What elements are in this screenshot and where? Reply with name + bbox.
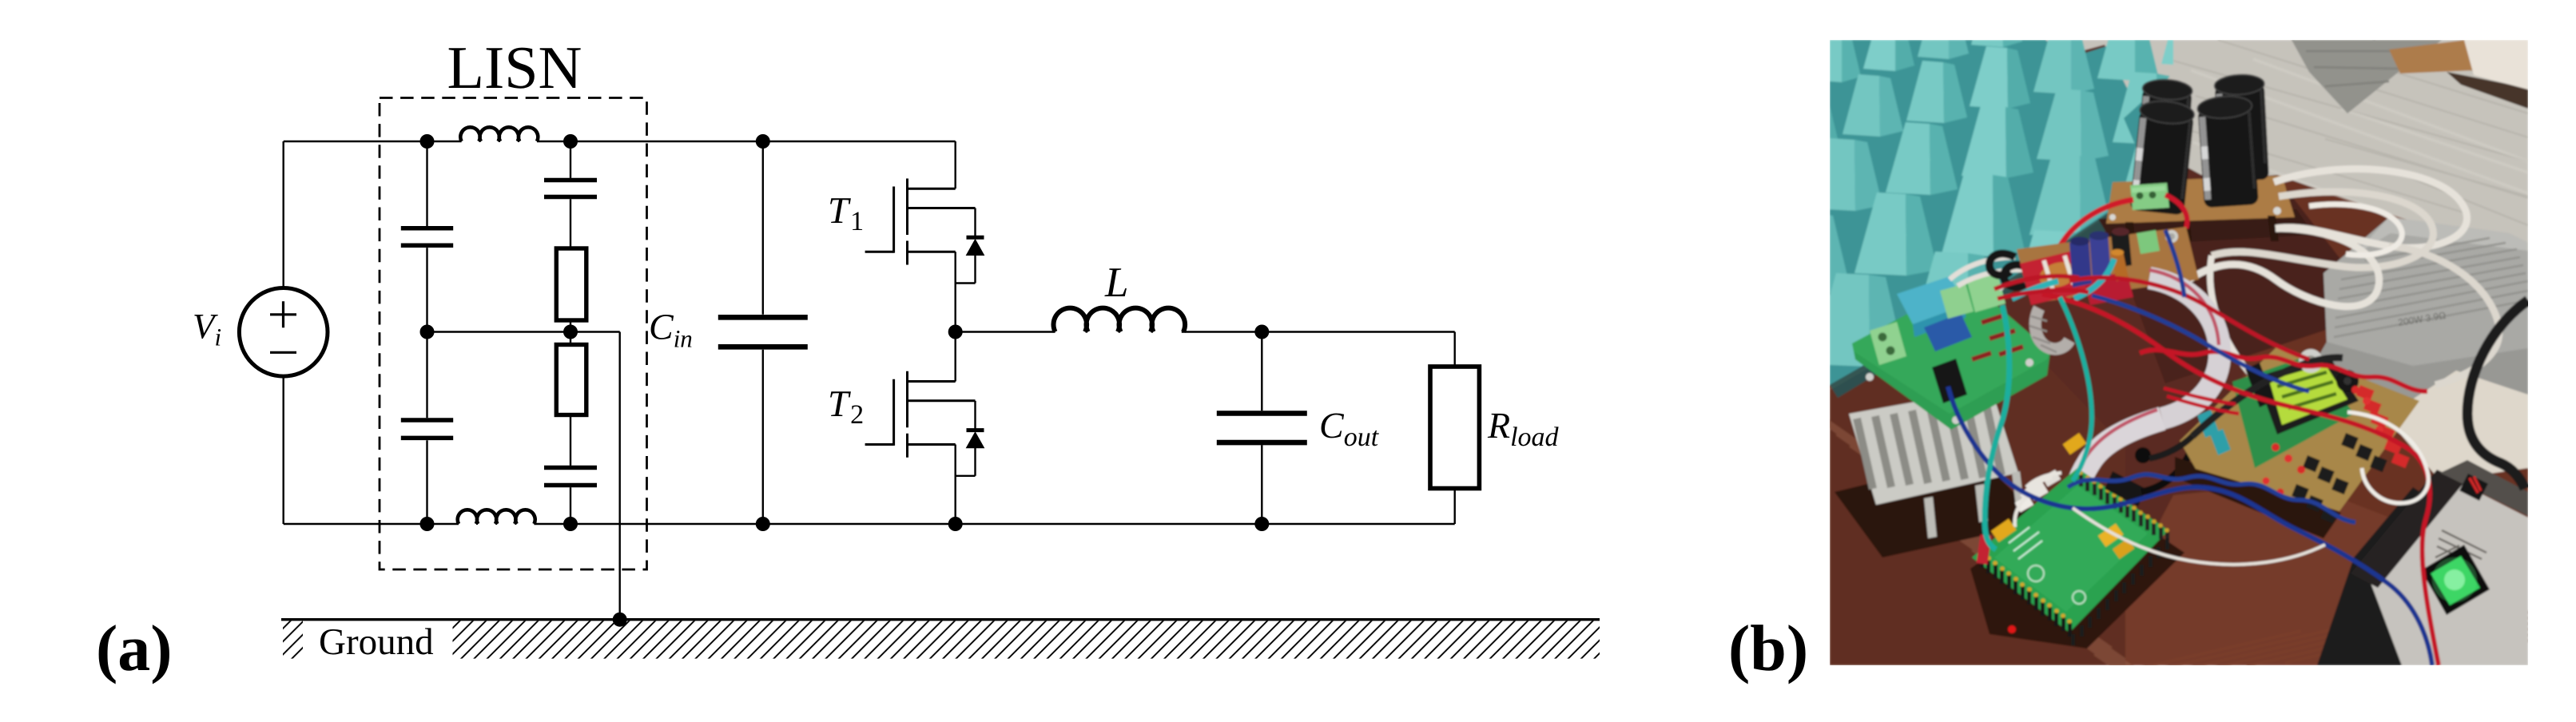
photo: teal wire left join [2012, 281, 2058, 299]
node T2 source [948, 517, 963, 531]
circuit schematic panel (a) [96, 34, 1808, 684]
svg-text:L: L [1104, 260, 1128, 306]
photo: green terminal block mid [1940, 284, 1974, 319]
photo: table edge highlight [1830, 211, 2111, 388]
wire LISN right branch seg1 [570, 141, 571, 178]
photo: dev board inner [1994, 486, 2148, 612]
photo: green terminal block left [1870, 322, 1906, 365]
photo: psu green button glow [2432, 557, 2477, 602]
capacitor LISN right upper [544, 178, 597, 183]
transistor T2 gate bar [892, 379, 895, 446]
photo: red terminals [2356, 385, 2375, 401]
photo: yellow connector 3 [2098, 523, 2124, 546]
photo: red wire upper arc [2069, 278, 2309, 359]
photo: cap board [2106, 176, 2295, 224]
photo: blue film cap left [1924, 313, 1972, 351]
wire bottom rail right [534, 523, 1454, 525]
node top-right LISN [563, 134, 578, 149]
photo: left PCB light top [1852, 281, 2050, 414]
photo: blue cap tops [2070, 237, 2089, 246]
photo: maroon cap center [2111, 230, 2132, 268]
photo: floor dark band seams [2306, 51, 2424, 86]
transistor T2 drain lead [908, 380, 956, 383]
photo: black hook 1 [1990, 254, 2015, 276]
photo: psu dark lower-left [2317, 487, 2485, 665]
svg-text:Ground: Ground [319, 621, 434, 663]
wire Cout lower [1261, 445, 1262, 524]
photo: transformer copper [2037, 258, 2080, 291]
photo: buzzer [2336, 370, 2359, 392]
photo: green terminal block right [1967, 273, 2006, 312]
wire T2 diode lower [974, 448, 976, 476]
wire top rail right [537, 141, 956, 142]
photo: silver resistor base shadow [2304, 375, 2528, 433]
photo: psu green button bezel [2421, 545, 2490, 615]
photo: transformer ties [2044, 256, 2073, 289]
photo: pot knob [2299, 349, 2323, 373]
photo: big capacitor front-right [2196, 94, 2258, 208]
node bottom-right LISN [563, 517, 578, 531]
photo: control board buttons [2341, 433, 2359, 450]
wire Vi top lead [283, 141, 284, 287]
svg-text:Rload: Rload [1487, 405, 1560, 452]
photo: psu logo [2459, 474, 2488, 501]
diode T2 cathode bar [967, 428, 984, 432]
photo: red wires at left board [1994, 276, 2089, 299]
photo: black cable over control [2192, 358, 2343, 436]
photo: yellow connector 2 [2063, 433, 2087, 454]
photo: dev board pin header left [1980, 554, 1984, 568]
wire Cin lower [762, 350, 764, 524]
inductor LISN top [460, 127, 538, 141]
svg-text:Cin: Cin [649, 307, 693, 353]
photo: black relay on left PCB [1932, 359, 1967, 403]
wire L to Rload [1182, 331, 1455, 332]
resistor LISN upper [556, 248, 586, 320]
node mid-right LISN [563, 325, 578, 339]
photo: blue cap center 1 [2069, 239, 2092, 288]
photo: red thin wires dev board [2164, 388, 2239, 414]
photo: left PCB screws [1866, 373, 1874, 381]
photo: red module 2 [2084, 272, 2133, 305]
resistor LISN lower [556, 345, 586, 415]
photo: ribbon cable upper [2149, 278, 2220, 419]
photo: big capacitor front-left [2129, 99, 2195, 216]
photo: heatsink legs [1924, 471, 2024, 538]
wire bottom rail left [284, 523, 459, 525]
photo: silver resistor body [2324, 217, 2528, 375]
photo: usb cable [2141, 447, 2192, 492]
photo: cap board screws [2273, 207, 2281, 215]
svg-text:T2: T2 [828, 383, 865, 430]
photo: teal wire to board [2060, 297, 2092, 481]
node Cin bottom [756, 517, 770, 531]
transistor T1 source lead [908, 251, 956, 253]
photo: foam bottom shadow [1830, 180, 2159, 398]
node ground attach [613, 613, 627, 627]
node Cin top [756, 134, 770, 149]
photo: ribbon cable red edge upper [2149, 270, 2219, 345]
photo: lcd pcb [2232, 355, 2354, 468]
photo: red led column [2363, 397, 2371, 405]
transistor T2 channel [906, 371, 908, 458]
wire T1 diode upper [974, 208, 976, 239]
photo: big capacitor back-right [2214, 73, 2269, 181]
transistor T1 channel [906, 179, 908, 265]
photo: dev board white wires [2015, 473, 2061, 527]
wire Rload lower [1453, 489, 1455, 525]
photo: black hook 2 [2004, 265, 2031, 288]
source Vi plus sign [270, 301, 296, 327]
wire LISN left branch upper [426, 141, 427, 226]
photo: heatsink shadow [1835, 457, 2044, 557]
svg-text:LISN: LISN [447, 34, 582, 101]
wire T1 diode return [956, 282, 976, 284]
photo: red wire wavy control [2140, 350, 2427, 391]
wire T2 source to rail [954, 445, 956, 525]
transistor T1 gate lead [865, 251, 894, 253]
ground line [281, 618, 1600, 621]
photo: lcd frame [2256, 355, 2359, 434]
node mid-left LISN [420, 325, 435, 339]
photo: thin white wire bottom [2073, 508, 2325, 565]
svg-text:Cout: Cout [1319, 405, 1380, 452]
photo: control board [2180, 345, 2419, 511]
photo: red led dev board [2008, 625, 2016, 633]
capacitor Cout [1217, 411, 1307, 416]
node Cout bottom [1254, 517, 1269, 531]
photo: lcd screen [2269, 364, 2347, 425]
photo: wood grain streaks lower-right [2093, 596, 2576, 679]
photo: table dark center [2101, 177, 2381, 383]
wire top rail left [284, 141, 462, 142]
inductor L [1053, 308, 1185, 332]
node switch [948, 325, 963, 339]
photo: blue cap center 2 [2089, 233, 2111, 280]
wire T2 diode upper [974, 401, 976, 431]
capacitor LISN right lower [544, 466, 597, 470]
photo: ribbon zip tie [2065, 484, 2092, 492]
photo: teal caps control [2197, 410, 2219, 438]
wire LISN left branch middle [426, 248, 427, 418]
photo: heatsink body [1849, 388, 2018, 505]
photo: green terminal holes left [1878, 333, 1887, 342]
photo: psu top dark edge [2440, 460, 2528, 516]
capacitor LISN left upper [401, 226, 453, 231]
photo: left PCB red parts [1972, 315, 2023, 359]
photo: silver bolt center [2165, 230, 2178, 243]
photo: table mid-right tone [2229, 176, 2528, 571]
photo: cap board legs [2125, 216, 2279, 251]
photo: foam base [1830, 40, 2173, 385]
photo: ribbon cable lower [2074, 419, 2162, 510]
resistor Rload [1430, 367, 1479, 489]
photo: blue wire at caps [2165, 230, 2184, 297]
node bottom-left LISN [420, 517, 435, 531]
photo: relay teal box [1897, 276, 1966, 324]
transistor T1 bulk lead [908, 207, 976, 209]
diode T2 triangle [967, 432, 984, 448]
photo: psu green button [2431, 556, 2480, 605]
photo: wood plank top-right corner [2389, 40, 2474, 73]
photo: heatsink fins [1857, 401, 2002, 489]
wire LISN right branch seg5 [570, 487, 571, 524]
wire LISN left branch lower [426, 440, 427, 524]
photo: white cable down [2210, 256, 2347, 413]
photo: red wire main [2042, 294, 2439, 665]
wire T2 drain from node [954, 332, 956, 382]
photo: teal wire center [2074, 259, 2114, 299]
node top-left LISN [420, 134, 435, 149]
photo: dev board white connectors [2028, 482, 2049, 500]
photo: dev board red jumper [1977, 534, 1992, 565]
photo: psu text lines [2437, 530, 2487, 574]
photo: teal wire long [1985, 305, 2010, 549]
photo: red wire at cap board [2057, 200, 2133, 270]
photo: green mini terminal center [2137, 230, 2160, 254]
source Vi minus sign [270, 351, 296, 354]
svg-text:(a): (a) [96, 612, 173, 684]
photo: white cable loop B [2212, 192, 2433, 268]
LISN dashed box [380, 98, 647, 570]
transistor T2 source lead [908, 443, 956, 446]
photo: black audio plug [2135, 447, 2151, 463]
svg-text:(b): (b) [1728, 612, 1808, 684]
photo: blue wire main [1948, 387, 2432, 665]
photo: psu button label [2435, 545, 2459, 557]
photo: table base [1830, 40, 2528, 665]
svg-text:T1: T1 [828, 190, 865, 236]
photo: dark sliver top-right [2447, 72, 2528, 109]
photo: table bottom-left tone [1830, 297, 2125, 665]
photo: dev board pin header right [2079, 474, 2083, 486]
wire T2 diode return [956, 475, 976, 477]
photo: white cable inner loop [2309, 204, 2402, 256]
capacitor Cin [718, 315, 808, 320]
photo: yellow connector 4 [2113, 538, 2134, 558]
photo: floor light streaks [2191, 59, 2528, 252]
photo: floor plank seams [2173, 40, 2528, 225]
inductor LISN bottom [458, 510, 535, 524]
photo: black cable right edge [2467, 300, 2528, 489]
wire to ground [619, 332, 621, 620]
wire switch node to L [956, 331, 1055, 332]
photo: dev board logo circles [2028, 565, 2044, 581]
photo: cap board green terminal [2130, 183, 2169, 210]
wire Cout upper [1261, 332, 1262, 411]
photo: blue wire wavy [2068, 474, 2355, 522]
photo: relay teal box side [1913, 305, 1966, 337]
photo: gray tube [2035, 308, 2069, 349]
photo: ribbon red edge lower [2070, 410, 2157, 502]
photo: cream corner top-right [2464, 40, 2528, 89]
wire T1 diode lower [974, 256, 976, 284]
diode T1 cathode bar [967, 236, 984, 240]
photo: left PCB [1852, 281, 2050, 430]
wire LISN right branch seg2 [570, 199, 571, 248]
photo: dev board pin header bottom [2071, 634, 2075, 645]
wire T1 source to node [954, 252, 956, 331]
photo: control board shadow [2175, 457, 2341, 538]
photo: control board led row [2272, 443, 2280, 451]
photo: silver resistor base flange [2308, 342, 2528, 411]
photo: dev board usb [2105, 471, 2146, 506]
diode T1 triangle [967, 240, 984, 256]
photo: lcd text lines [2277, 372, 2336, 408]
svg-text:Vi: Vi [193, 307, 221, 351]
wire T1 drain from rail [954, 141, 956, 188]
photo: floor dark band top-center [2292, 40, 2442, 113]
photo: cap board terminal detail [2137, 192, 2144, 200]
photo: thin white wire right [2347, 412, 2428, 503]
wire Vi bottom lead [283, 378, 284, 524]
photo: white wires to hooks [1950, 257, 2031, 286]
photo: header strip control [2245, 363, 2274, 407]
node Cout top [1254, 325, 1269, 339]
wire Rload upper [1453, 332, 1455, 367]
ground hatch left stub [283, 621, 303, 658]
photo: white cable loop A [2274, 169, 2467, 248]
photo: big capacitor back-left [2136, 78, 2192, 190]
photo: silver resistor top sheen [2354, 217, 2528, 256]
photo: gray tube ribs [2029, 316, 2057, 352]
photo: floor base [2042, 40, 2528, 261]
photo: table lighter bottom-right [2085, 471, 2528, 665]
wire LISN middle rail [427, 331, 620, 332]
photo: white cable to resistor [2389, 246, 2499, 385]
photo: center PCB [2017, 227, 2199, 303]
photo: copper screw post [2111, 252, 2129, 281]
transistor T1 drain lead [908, 188, 956, 190]
wire LISN right branch seg4 [570, 415, 571, 466]
photo: white paper sheet [2386, 371, 2528, 481]
photo: wood grain streaks lower-left [1782, 388, 2234, 722]
photo: yellow connector 1 [1991, 518, 2017, 541]
ground hatch main [453, 621, 1600, 658]
wire Cin upper [762, 141, 764, 315]
capacitor LISN left lower [401, 418, 453, 422]
photo: psu black frame edge [2351, 470, 2464, 588]
photo: blue wire top [2092, 296, 2309, 391]
photo: dev board shadow [1970, 486, 2184, 649]
source Vi circle [239, 288, 328, 377]
wire LISN right branch seg3 [570, 320, 571, 345]
photo: psu face [2363, 473, 2528, 665]
photo: silver resistor fins [2334, 238, 2528, 337]
photo: white cable loop C [2189, 228, 2379, 307]
photo: red transformer module [2020, 249, 2090, 305]
transistor T2 gate lead [865, 443, 894, 446]
photo: red wire cap terminal [2165, 195, 2187, 228]
photo: dev board silk text [2009, 527, 2042, 559]
photo: dev board [1972, 468, 2169, 633]
photograph panel (b) [1767, 0, 2576, 722]
transistor T1 gate bar [892, 187, 895, 253]
photo: foam pyramids [1767, 0, 2301, 367]
photo: cap board shadow [2098, 209, 2314, 246]
transistor T2 bulk lead [908, 399, 976, 402]
